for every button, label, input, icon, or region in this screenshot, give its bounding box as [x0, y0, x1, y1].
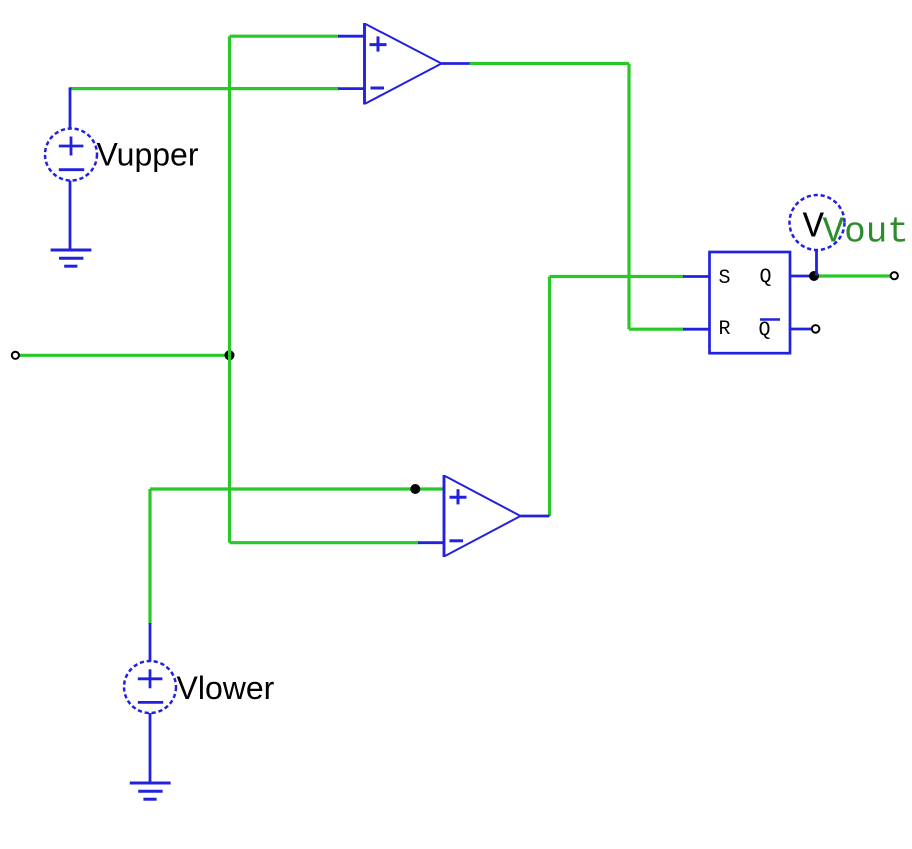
voltage source Vupper [45, 87, 97, 249]
SR latch U3 body [710, 252, 791, 353]
svg-text:S: S [719, 267, 731, 290]
latch pin stub Qbar [790, 328, 811, 331]
voltmeter V1 (Vout probe) [790, 195, 845, 276]
input terminal (open pin) [12, 352, 19, 359]
wire: latch Q output to Vout terminal [814, 274, 891, 277]
svg-text:Vlower: Vlower [177, 670, 275, 706]
pin label Qbar [759, 319, 781, 342]
node A junction dot [225, 350, 235, 360]
wire: Vupper to U1 - input [70, 87, 339, 90]
Vout open terminal [891, 272, 898, 279]
Qbar open terminal [812, 325, 820, 333]
junction dot at Q output node [809, 271, 819, 281]
op-amp U2 (lower comparator) [418, 475, 550, 557]
svg-text:Q: Q [760, 266, 772, 289]
svg-text:Vupper: Vupper [97, 137, 199, 173]
svg-text:V: V [803, 206, 825, 247]
latch pin stub Q [790, 275, 814, 278]
ground below Vupper [51, 250, 92, 266]
wire: input net to junction A [20, 354, 231, 357]
junction dot at U2 + input pin [410, 484, 420, 494]
wire: vertical bus from U1 + input down to U2 - input [228, 36, 231, 543]
latch pin stub S [683, 275, 709, 278]
latch pin stub R [683, 328, 709, 331]
svg-text:Vout: Vout [823, 211, 909, 252]
wire: U2 output to latch S input [550, 277, 685, 517]
wire: to U2 - input [230, 541, 420, 544]
svg-text:Q: Q [759, 319, 771, 342]
ground below Vlower [130, 783, 171, 799]
voltage source Vlower [124, 623, 176, 782]
wire: Vlower to U2 + input [150, 489, 444, 624]
wire: to U1 + input [230, 35, 340, 38]
op-amp U1 (upper comparator) [338, 23, 470, 105]
svg-text:R: R [719, 318, 731, 341]
wire: U1 output to latch R input [469, 64, 684, 330]
